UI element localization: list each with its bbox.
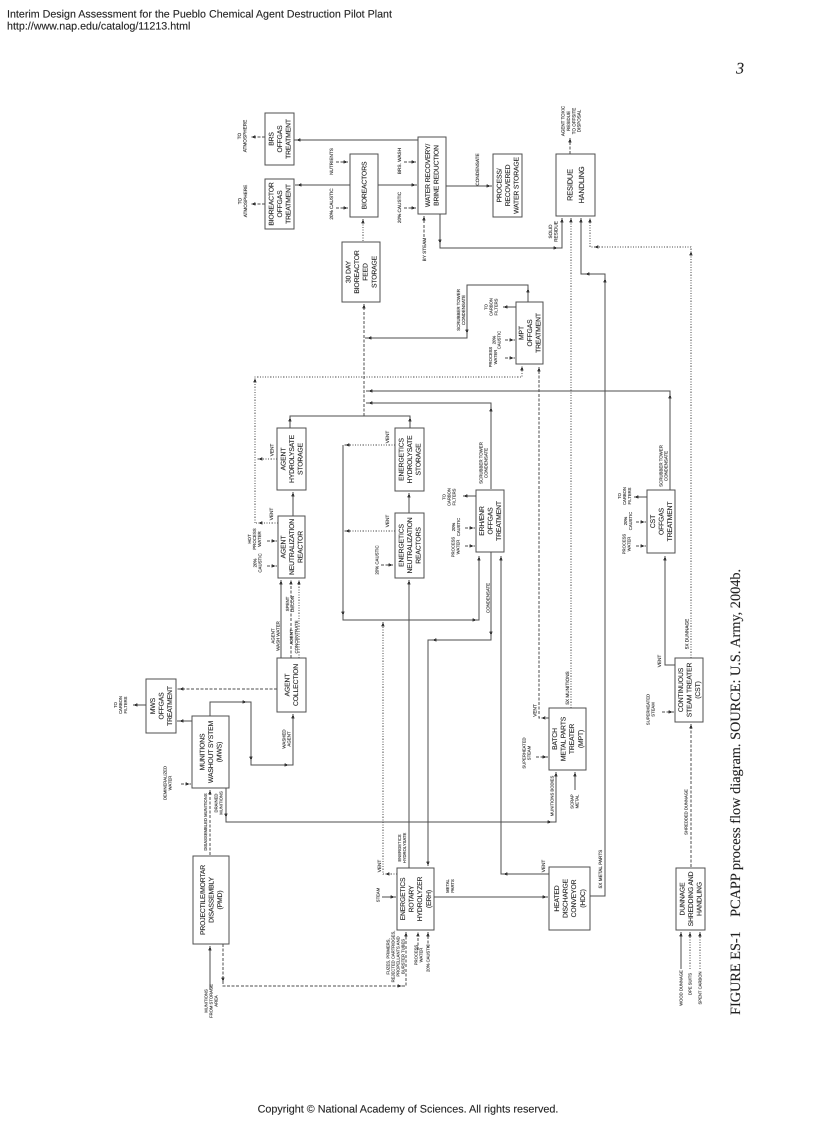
svg-text:WATER STORAGE: WATER STORAGE [514, 156, 521, 213]
label: TO CARBON FILTERS (ERH offgas) [442, 488, 457, 506]
svg-text:VENT: VENT [657, 655, 662, 668]
process box: MUNITIONS WASHOUT SYSTEM (MWS) [192, 716, 229, 788]
svg-text:CONVEYOR: CONVEYOR [571, 879, 578, 917]
label: SUPERHEATED STEAM (CST) [646, 694, 656, 725]
svg-text:WATER RECOVERY/: WATER RECOVERY/ [425, 144, 432, 208]
label: 20% CAUSTIC (ERH) [426, 944, 431, 972]
wire: hydrolysate riser to 30-day storage [362, 304, 365, 416]
wire: 5X metal parts (HDC to residue handling) [579, 218, 606, 896]
svg-text:CONDENSATE: CONDENSATE [475, 153, 480, 185]
wire: agent wash water riser [279, 580, 282, 658]
wire: ERH/ENR offgas to carbon filters [463, 494, 476, 497]
svg-text:DUNNAGE: DUNNAGE [679, 882, 686, 916]
label: TO CARBON FILTERS (MPT offgas) [484, 298, 499, 316]
svg-text:WASH WATER: WASH WATER [276, 621, 281, 651]
svg-text:MPT: MPT [518, 326, 525, 340]
label: WASHED AGENT [281, 729, 291, 748]
svg-text:CONDENSATE: CONDENSATE [484, 448, 489, 478]
process box: WATER RECOVERY / BRINE REDUCTION [418, 137, 446, 214]
svg-text:(MPT): (MPT) [578, 730, 585, 748]
wire: MPT offgas to carbon filters [503, 305, 516, 308]
svg-text:BURSTER TUBES: BURSTER TUBES [401, 939, 406, 974]
svg-text:REACTOR: REACTOR [298, 531, 305, 563]
svg-text:FILTERS: FILTERS [494, 298, 499, 315]
label: MUNITIONS BODIES [550, 776, 555, 817]
process box: PROJECTILE/MORTAR DISASSEMBLY (PMD) [193, 856, 229, 944]
process box: RESIDUE HANDLING [556, 154, 595, 216]
svg-text:AGENT: AGENT [280, 448, 287, 471]
svg-text:PROCESS/: PROCESS/ [496, 168, 503, 202]
wire: process water stub (CST offgas) [636, 544, 646, 547]
wire: 5X dunnage (CST to residue handling) [588, 218, 692, 658]
label: TO CARBON FILTERS (CST offgas) [617, 487, 632, 505]
svg-text:AREA: AREA [214, 995, 219, 1007]
label: 20% CAUSTIC (CST offgas) [623, 512, 633, 530]
wire: energetics storage vent [343, 443, 395, 446]
svg-text:CONDENSATE: CONDENSATE [486, 583, 491, 613]
wire: 20% caustic stub (bioreactors) [336, 206, 349, 209]
label: SCRUBBER TOWER CONDENSATE (MPT) [456, 289, 466, 331]
svg-text:(MWS): (MWS) [217, 742, 224, 762]
svg-text:20% CAUSTIC: 20% CAUSTIC [426, 944, 431, 972]
svg-text:STEAM: STEAM [376, 887, 381, 902]
label: SPENT CARBON [698, 972, 703, 1005]
svg-text:HYDROLYSATE: HYDROLYSATE [289, 434, 296, 483]
svg-text:RESIDUE: RESIDUE [566, 111, 571, 131]
svg-text:WATER: WATER [168, 776, 173, 791]
wire: CST offgas scrubber condensate [366, 389, 672, 490]
svg-text:(CST): (CST) [695, 681, 702, 698]
wire: agent hydrolysate reactor to storage [291, 492, 294, 516]
svg-text:PROJECTILE/MORTAR: PROJECTILE/MORTAR [200, 865, 207, 935]
label: SCRUBBER TOWER CONDENSATE (CST) [658, 445, 668, 487]
label: CONDENSATE (to ERH) [486, 583, 491, 613]
wire: HDC vent riser [499, 556, 549, 876]
label: DEMINERALIZED WATER [163, 766, 173, 800]
svg-text:ATMOSPHERE: ATMOSPHERE [243, 185, 248, 217]
wire: energetics to ERH line [221, 932, 407, 988]
label: FUZES PRIMERS... [386, 931, 406, 983]
wire: superheated steam stub (MPT) [536, 755, 548, 758]
wire: 5X munitions (MPT to residue handling) [569, 218, 572, 708]
wire: munitions bodies line [224, 772, 557, 824]
svg-text:STORAGE: STORAGE [298, 442, 305, 475]
svg-text:REACTORS: REACTORS [416, 527, 423, 564]
svg-text:TREATMENT: TREATMENT [286, 184, 293, 224]
label: TO CARBON FILTERS (MWS offgas) [113, 696, 128, 714]
svg-text:STEAM: STEAM [527, 745, 532, 760]
svg-text:VENT: VENT [377, 860, 382, 873]
svg-text:VENT: VENT [385, 515, 390, 528]
wire: 20% caustic stub (ERH offgas) [465, 526, 475, 529]
svg-text:CST: CST [650, 515, 657, 528]
label: AGENT TOXIC RESIDUE TO OFFSITE DISPOSAL [561, 105, 582, 136]
label: VENT (agent reactor) [269, 508, 274, 521]
label: VENT (agent storage) [270, 444, 275, 457]
svg-text:SHREDDED DUNNAGE: SHREDDED DUNNAGE [684, 789, 689, 835]
svg-text:VENT: VENT [269, 508, 274, 521]
svg-text:SPENT CARBON: SPENT CARBON [698, 972, 703, 1005]
wire: agent collection vent to MWS offgas [177, 687, 277, 690]
label: 20% CAUSTIC (energetics reactor) [375, 545, 380, 574]
wire: process water stub (ERH) [416, 932, 419, 950]
label: VENT (ERH) [377, 860, 382, 873]
svg-text:WATER: WATER [493, 350, 498, 365]
svg-text:BRS. WASH: BRS. WASH [397, 148, 402, 174]
label: SUPERHEATED STEAM (MPT) [522, 737, 532, 768]
process box: BATCH METAL PARTS TREATER (MPT) [549, 708, 586, 770]
svg-text:WATER: WATER [627, 537, 632, 552]
label: METAL PARTS [445, 879, 455, 893]
wire: agent reactor vent [256, 521, 278, 524]
svg-text:DISASSEMBLY: DISASSEMBLY [208, 876, 215, 922]
label: AGENT CONCENTRATE [289, 620, 299, 653]
wire: energetics reactor vent [343, 529, 395, 532]
svg-text:5X DUNNAGE: 5X DUNNAGE [685, 619, 690, 649]
svg-text:AGENT: AGENT [280, 536, 287, 559]
label: TO ATMOSPHERE (BRS) [237, 120, 248, 152]
svg-text:20% CAUSTIC: 20% CAUSTIC [329, 188, 334, 220]
svg-text:OFFGAS: OFFGAS [158, 692, 165, 720]
svg-text:BIOREACTORS: BIOREACTORS [361, 161, 368, 209]
process box: BRS OFFGAS TREATMENT [265, 113, 294, 165]
process box: MWS OFFGAS TREATMENT [146, 679, 176, 733]
label: VENT (MPT) [533, 704, 538, 717]
label: AGENT WASH WATER [270, 621, 280, 651]
label: DPE SUITS [688, 973, 693, 995]
svg-text:MUNITIONS: MUNITIONS [199, 733, 206, 770]
wire: disassembled munitions riser [208, 790, 211, 855]
svg-text:FEED: FEED [363, 263, 370, 281]
svg-text:CONTINUOUS: CONTINUOUS [678, 667, 685, 712]
wire: bioreactors to water recovery [378, 183, 417, 186]
svg-text:TREATMENT: TREATMENT [667, 502, 674, 542]
svg-text:AGENT: AGENT [285, 674, 292, 697]
label: SOLID RESIDUE [548, 221, 559, 242]
svg-text:BRS: BRS [268, 132, 275, 146]
process box: AGENT COLLECTION [277, 658, 306, 712]
svg-text:OFFGAS: OFFGAS [487, 507, 494, 535]
wire: ERH/ENR offgas scrubber condensate [366, 401, 493, 489]
svg-text:CONDENSATE: CONDENSATE [664, 451, 669, 481]
wire: scrap metal stub (MPT) [573, 772, 576, 790]
label: VENT (energetics storage) [385, 431, 390, 444]
label: PROCESS WATER (ERH offgas) [451, 537, 461, 558]
label: TO ATMOSPHERE (bioreactor) [237, 185, 248, 217]
wire: spent carbon stub [698, 932, 701, 969]
label: 5X MUNITIONS [565, 671, 570, 704]
process box: AGENT HYDROLYSATE STORAGE [277, 428, 306, 490]
svg-text:BRINE REDUCTION: BRINE REDUCTION [434, 145, 441, 206]
label: ENERGETICS HYDROLYSATE [397, 833, 407, 864]
svg-text:Interim Design Assessment for: Interim Design Assessment for the Pueblo… [7, 9, 392, 21]
svg-text:STORAGE: STORAGE [371, 255, 378, 288]
svg-text:METAL PARTS: METAL PARTS [561, 716, 568, 761]
label: 20% CAUSTIC (MPT offgas) [492, 331, 502, 349]
wire: shredded dunnage riser [689, 724, 692, 867]
wire: ERH vent riser [381, 622, 397, 876]
wire: DPE suits stub [688, 932, 691, 969]
svg-text:WATER: WATER [419, 948, 424, 963]
svg-text:ATMOSPHERE: ATMOSPHERE [242, 120, 247, 152]
svg-text:20% CAUSTIC: 20% CAUSTIC [397, 191, 402, 223]
wire: MPT vent to MPT offgas [537, 367, 549, 720]
label: 5X DUNNAGE [685, 619, 690, 649]
label: 20% CAUSTIC (agent reactor) [252, 553, 262, 572]
label: 20% CAUSTIC (ERH offgas) [451, 518, 461, 536]
wire: 20% caustic stub (agent reactor) [267, 564, 277, 567]
svg-text:WATER: WATER [257, 531, 262, 546]
svg-text:TREATMENT: TREATMENT [536, 313, 543, 353]
svg-text:http://www.nap.edu/catalog/112: http://www.nap.edu/catalog/11213.html [7, 21, 190, 33]
wire: vent header line to MPT offgas [253, 366, 523, 523]
wire: energetics vent header [341, 445, 480, 622]
wire: washed agent path [210, 700, 295, 766]
svg-text:PARTS: PARTS [450, 879, 455, 893]
label: 5X METAL PARTS [598, 850, 603, 889]
wire: BRS wash stub [404, 160, 417, 163]
svg-text:5X MUNITIONS: 5X MUNITIONS [565, 671, 570, 704]
wire: ERH/ENR offgas condensate to ERH [426, 552, 492, 866]
wire: superheated steam stub (CST) [662, 710, 674, 713]
label: NUTRIENTS [329, 148, 334, 175]
svg-text:CAUSTIC: CAUSTIC [497, 331, 502, 349]
svg-text:CAUSTIC: CAUSTIC [456, 518, 461, 536]
svg-text:CAUSTIC: CAUSTIC [258, 553, 263, 572]
svg-text:TO OFFSITE: TO OFFSITE [571, 108, 576, 134]
process box: PROCESS / RECOVERED WATER STORAGE [493, 154, 522, 217]
wire: bioreactors vent to bioreactor offgas [295, 183, 350, 186]
svg-text:STEAM: STEAM [651, 702, 656, 717]
label: MUNITIONS FROM STORAGE AREA [204, 984, 219, 1018]
label: SHREDDED DUNNAGE [684, 789, 689, 835]
wire: 20% caustic stub (CST offgas) [636, 520, 646, 523]
label: VENT (HDC) [541, 860, 546, 873]
svg-text:FILTERS: FILTERS [627, 487, 632, 504]
svg-text:30 DAY: 30 DAY [346, 260, 353, 283]
wire: hydrolysate collection line [288, 416, 411, 428]
svg-text:TREATMENT: TREATMENT [286, 119, 293, 159]
svg-text:OFFGAS: OFFGAS [277, 190, 284, 218]
svg-text:RECOVERED: RECOVERED [505, 164, 512, 206]
process box: ENERGETICS NEUTRALIZATION REACTORS [395, 513, 424, 578]
wire: 20% caustic stub (energetics reactor) [381, 563, 394, 566]
label: VENT (CST) [657, 655, 662, 668]
svg-text:STORAGE: STORAGE [416, 443, 423, 476]
wire: agent hydrolysate storage vent [256, 457, 277, 460]
svg-text:CONCENTRATE: CONCENTRATE [294, 620, 299, 653]
label: DISASSEMBLED MUNITIONS [203, 793, 208, 850]
svg-text:HEATED: HEATED [554, 885, 561, 911]
svg-text:FILTERS: FILTERS [123, 696, 128, 713]
process box: BIOREACTORS [350, 154, 378, 217]
wire: agent concentrate riser [297, 580, 300, 658]
label: SPENT DECON [285, 596, 295, 612]
wire: 20% caustic stub (ERH) [426, 932, 429, 948]
svg-text:ENERGETICS: ENERGETICS [400, 877, 407, 920]
process box: MPT OFFGAS TREATMENT [516, 302, 543, 364]
process box: ENERGETICS ROTARY HYDROLYZER (ERH) [397, 868, 434, 930]
wire: condensate to process water storage [446, 184, 492, 187]
svg-text:VENT: VENT [385, 431, 390, 444]
wire: 20% caustic stub (MPT offgas) [505, 338, 515, 341]
svg-text:(ERH): (ERH) [426, 890, 433, 908]
svg-text:CONDENSATE: CONDENSATE [461, 295, 466, 325]
wire: HP steam stub (water recovery) [422, 216, 425, 237]
svg-text:TO: TO [237, 132, 242, 139]
svg-text:MUNITIONS BODIES: MUNITIONS BODIES [550, 776, 555, 817]
svg-text:HYDROLYSATE: HYDROLYSATE [402, 833, 407, 864]
wire: spent decon riser [289, 580, 292, 658]
svg-text:20% CAUSTIC: 20% CAUSTIC [375, 545, 380, 574]
svg-text:TREATMENT: TREATMENT [167, 686, 174, 726]
svg-text:5X METAL PARTS: 5X METAL PARTS [598, 850, 603, 889]
wire: process water stub (ERH offgas) [465, 544, 475, 547]
wire: MPT offgas scrubber condensate [365, 285, 530, 340]
wire: CST offgas to carbon filters [634, 495, 647, 498]
label: CONDENSATE [475, 153, 480, 185]
wire: munitions from storage area [208, 946, 211, 990]
wire: hot process water stub [267, 539, 277, 542]
label: PROCESS WATER (MPT offgas) [488, 347, 498, 368]
label: WOOD DUNNAGE [679, 970, 684, 1006]
svg-text:MWS: MWS [150, 697, 157, 714]
process box: ENERGETICS HYDROLYSATE STORAGE [395, 428, 424, 491]
wire: BRS offgas to atmosphere [251, 135, 265, 138]
svg-text:TREATER: TREATER [569, 724, 576, 754]
label: DRAINED MUNITIONS [214, 791, 224, 815]
process box: ERH/ENR OFFGAS TREATMENT [476, 490, 504, 552]
svg-text:HANDLING: HANDLING [697, 882, 704, 916]
wire: metal parts ERH to HDC [434, 895, 548, 898]
svg-text:TREATMENT: TREATMENT [496, 501, 503, 541]
svg-text:BIOREACTOR: BIOREACTOR [268, 182, 275, 226]
wire: bioreactor offgas to atmosphere [251, 202, 265, 205]
svg-text:HYDROLYSATE: HYDROLYSATE [407, 435, 414, 484]
svg-text:FILTERS: FILTERS [452, 488, 457, 505]
svg-text:COLLECTION: COLLECTION [293, 664, 300, 706]
wire: bioreactor feed riser [361, 219, 364, 241]
wire: CST vent to CST offgas [663, 556, 675, 665]
svg-text:WASHOUT SYSTEM: WASHOUT SYSTEM [208, 720, 215, 783]
svg-text:ENERGETICS: ENERGETICS [398, 438, 405, 481]
svg-text:ENERGETICS: ENERGETICS [398, 524, 405, 567]
label: HP STEAM [422, 238, 427, 262]
wire: solid residue to residue handling [438, 214, 563, 250]
svg-text:OFFGAS: OFFGAS [658, 507, 665, 535]
svg-text:AGENT: AGENT [287, 731, 292, 746]
svg-text:BIOREACTOR: BIOREACTOR [354, 250, 361, 294]
svg-text:OFFGAS: OFFGAS [527, 319, 534, 347]
svg-text:NEUTRALIZATION: NEUTRALIZATION [407, 517, 414, 573]
svg-text:ROTARY: ROTARY [409, 885, 416, 912]
svg-text:VENT: VENT [533, 704, 538, 717]
svg-text:3: 3 [735, 60, 744, 78]
wire: residue handling to offsite disposal [568, 138, 571, 154]
svg-text:Copyright © National Academy o: Copyright © National Academy of Sciences… [258, 1104, 559, 1116]
svg-text:METAL: METAL [575, 794, 580, 808]
svg-text:HYDROLYZER: HYDROLYZER [417, 877, 424, 922]
svg-text:WOOD DUNNAGE: WOOD DUNNAGE [679, 970, 684, 1006]
svg-text:FIGURE ES-1 PCAPP process flow: FIGURE ES-1 PCAPP process flow diagram. … [728, 569, 744, 1015]
wire: MWS vent to MWS offgas [177, 719, 192, 722]
process box: HEATED DISCHARGE CONVEYOR (HDC) [549, 867, 590, 930]
wire: energetics hydrolysate reactor to storage [407, 493, 410, 513]
svg-text:HANDLING: HANDLING [577, 166, 586, 203]
svg-text:CAUSTIC: CAUSTIC [628, 512, 633, 530]
process box: CONTINUOUS STEAM TREATER (CST) [675, 658, 703, 722]
label: PROCESS WATER (ERH) [414, 945, 424, 966]
svg-text:DISPOSAL: DISPOSAL [577, 109, 582, 132]
svg-text:(HDC): (HDC) [580, 889, 587, 908]
label: BRS WASH [397, 148, 402, 174]
svg-text:VENT: VENT [270, 444, 275, 457]
wire: process water stub (MPT offgas) [505, 356, 515, 359]
label: VENT (energetics reactor) [385, 515, 390, 528]
wire: nutrients stub [336, 160, 349, 163]
svg-text:AGENT TOXIC: AGENT TOXIC [561, 105, 566, 136]
label: SCRUBBER TOWER CONDENSATE (ERH) [478, 442, 488, 484]
svg-text:RESIDUE: RESIDUE [553, 221, 558, 242]
svg-text:VENT: VENT [541, 860, 546, 873]
svg-text:NUTRIENTS: NUTRIENTS [329, 148, 334, 175]
svg-text:NEUTRALIZATION: NEUTRALIZATION [289, 519, 296, 575]
wire: demineralized water stub [181, 782, 191, 785]
svg-text:BY STEAM: BY STEAM [422, 238, 427, 262]
svg-text:DISCHARGE: DISCHARGE [563, 878, 570, 918]
process box: AGENT NEUTRALIZATION REACTOR [278, 516, 305, 578]
label: 20% CAUSTIC (bioreactors) [329, 188, 334, 220]
wire: MWS offgas to carbon filters [133, 703, 146, 706]
svg-text:DISASSEMBLED MUNITIONS: DISASSEMBLED MUNITIONS [203, 793, 208, 850]
label: STEAM (ERH) [376, 887, 381, 902]
svg-text:BATCH: BATCH [552, 728, 559, 750]
label: PROCESS WATER (CST offgas) [622, 534, 632, 555]
process box: 30 DAY BIOREACTOR FEED STORAGE [342, 242, 380, 302]
label: 20% CAUSTIC (water recovery) [397, 191, 402, 223]
svg-text:STEAM TREATER: STEAM TREATER [686, 663, 693, 718]
svg-text:SHREDDING AND: SHREDDING AND [688, 871, 695, 926]
label: HOT PROCESS WATER [247, 528, 262, 550]
svg-text:ERH/ENR: ERH/ENR [479, 506, 486, 536]
svg-text:(PMD): (PMD) [217, 891, 224, 910]
process box: DUNNAGE SHREDDING AND HANDLING [676, 868, 705, 930]
svg-text:DPE SUITS: DPE SUITS [688, 973, 693, 995]
wire: energetics hydrolysate ERH to ENR [407, 580, 410, 868]
label: SCRAP METAL [570, 794, 580, 809]
wire: water recovery vent to BRS offgas [294, 138, 418, 141]
wire: steam stub (ERH) [382, 895, 396, 898]
process box: BIOREACTOR OFFGAS TREATMENT [265, 179, 294, 229]
svg-text:RESIDUE: RESIDUE [565, 169, 574, 201]
wire: wood dunnage stub [679, 932, 682, 969]
svg-text:SOLID: SOLID [548, 224, 553, 239]
process box: CST OFFGAS TREATMENT [647, 490, 675, 553]
svg-text:DECON: DECON [290, 596, 295, 612]
svg-text:OFFGAS: OFFGAS [277, 125, 284, 153]
svg-text:MUNITIONS: MUNITIONS [219, 791, 224, 815]
svg-text:TO: TO [237, 197, 242, 204]
svg-text:WATER: WATER [456, 540, 461, 555]
wire: 20% caustic stub (water recovery) [404, 206, 417, 209]
